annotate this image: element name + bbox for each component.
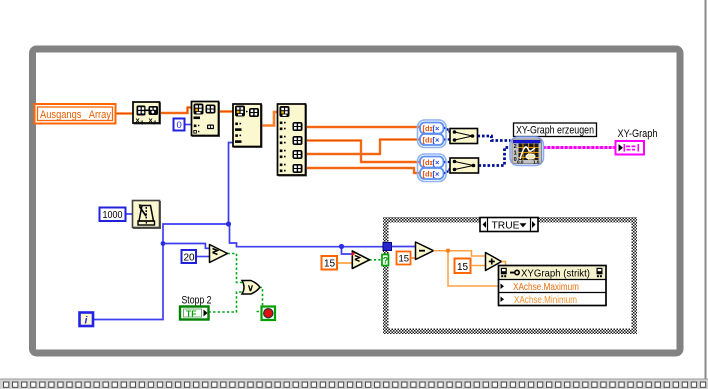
svg-text:[dɪ: [dɪ <box>423 124 433 133</box>
svg-text:[×: [× <box>433 158 440 167</box>
wire express vi to XY-Graph terminal <box>543 146 616 149</box>
wire convert2 to merge1 <box>444 138 451 140</box>
svg-text:XY-Graph erzeugen: XY-Graph erzeugen <box>516 125 594 137</box>
svg-text:[×: [× <box>433 170 440 179</box>
greater-equal node 1 <box>210 245 228 263</box>
junction dot A <box>226 221 231 226</box>
property node XYGraph (strikt) <box>499 266 607 306</box>
wire merge1 to express vi <box>478 136 511 141</box>
while loop border <box>33 49 681 353</box>
loop condition stop terminal <box>262 307 276 321</box>
control Ausgangs_Array <box>35 104 116 124</box>
numeric constant 15 b <box>455 259 471 274</box>
svg-text:[×: [× <box>433 136 440 145</box>
constant 1000 <box>100 208 126 222</box>
svg-text:[×: [× <box>433 124 440 133</box>
convert to dynamic data 3 <box>420 157 444 168</box>
svg-text:XYGraph (strikt): XYGraph (strikt) <box>521 268 590 280</box>
wire node2 to node3 <box>261 112 278 126</box>
bottom marquee strip <box>0 379 708 389</box>
constant 20 <box>182 250 197 263</box>
svg-text:ij: ij <box>141 119 144 125</box>
svg-text:15: 15 <box>324 259 336 270</box>
greater-equal node 2 <box>352 251 369 269</box>
wire convert1 to merge1 <box>444 128 451 132</box>
wire Transpose to node1 <box>160 108 192 114</box>
wire node3 out4 to convert4 <box>306 168 421 173</box>
case selector tunnel <box>382 255 389 266</box>
svg-text:ji: ji <box>153 119 157 125</box>
wire Stopp2 to or-gate <box>209 292 243 312</box>
wire branch to greater-equal 2 <box>342 247 353 255</box>
convert pair outline lower <box>418 154 447 182</box>
wire node3 out3 to convert2 <box>306 140 421 155</box>
wire or-gate to loop condition <box>260 288 263 307</box>
svg-text:XAchse.Maximum: XAchse.Maximum <box>513 281 579 293</box>
coercion dot greater-equal 2 <box>352 252 356 256</box>
convert to dynamic data 2 <box>420 134 444 145</box>
constant 15 c <box>322 256 338 270</box>
wire 1000 to metronome <box>126 213 133 215</box>
wire Ausgangs_Array to Transpose <box>116 112 133 115</box>
svg-text:[dɪ: [dɪ <box>423 158 433 167</box>
transpose node <box>133 102 161 125</box>
node1 array subset <box>192 102 220 137</box>
svg-text:15: 15 <box>457 262 469 273</box>
express vi label box XY-Graph erzeugen <box>514 123 597 137</box>
svg-text:?: ? <box>383 256 389 266</box>
boolean control Stopp 2 <box>180 295 212 320</box>
wire 15b to add <box>471 265 486 267</box>
wire iteration terminal i <box>93 143 233 320</box>
node3 index array expanded <box>278 104 307 176</box>
numeric constant 15 a <box>397 252 411 265</box>
property row XAchse.Minimum <box>501 297 505 303</box>
wire merge2 to express vi <box>479 148 511 166</box>
svg-text:TRUE: TRUE <box>492 220 520 231</box>
svg-text:[dɪ: [dɪ <box>423 170 433 179</box>
indicator terminal XY-Graph <box>616 141 645 155</box>
junction dot C <box>339 244 344 249</box>
wait metronome node <box>133 201 161 229</box>
constant 0 <box>174 119 185 132</box>
property node corner glyph left <box>501 268 507 277</box>
wire 15 to greater-equal 2 <box>337 262 352 264</box>
svg-text:XAchse.Minimum: XAchse.Minimum <box>514 294 577 306</box>
svg-text:TF: TF <box>186 309 196 319</box>
svg-text:20: 20 <box>184 252 196 263</box>
wire tunnel to subtract <box>392 246 416 248</box>
wire node3 out1 to convert1 <box>306 126 421 128</box>
svg-text:1.0: 1.0 <box>533 160 540 165</box>
wire convert4 to merge2 <box>444 170 451 174</box>
refnum glyph <box>510 270 519 274</box>
svg-text:15: 15 <box>399 254 410 265</box>
svg-text:1000: 1000 <box>103 209 123 221</box>
junction dot B <box>161 241 166 246</box>
wire junction to add <box>448 251 486 256</box>
subtract node <box>416 242 434 260</box>
merge signals 1 <box>450 129 478 144</box>
wire 20 to greater-equal 1 <box>196 256 210 258</box>
merge signals 2 <box>450 158 479 173</box>
wire greater-equal 2 output to selector tunnel <box>370 259 383 261</box>
case input tunnel (blue square) <box>383 243 392 251</box>
coercion dot subtract <box>415 245 419 249</box>
case structure border <box>383 217 637 334</box>
window edge vertical line <box>705 0 707 379</box>
wire constant 0 to node1 <box>185 124 192 126</box>
property row XAchse.Maximum <box>501 284 505 290</box>
svg-text:0: 0 <box>177 120 182 131</box>
iteration terminal i <box>80 313 94 327</box>
svg-text:∨: ∨ <box>247 283 254 294</box>
svg-text:0.0: 0.0 <box>517 160 524 165</box>
wire node3 out2 to convert3 <box>306 141 421 163</box>
wire junction down to property row2 <box>448 251 499 286</box>
wire convert3 to merge2 <box>444 161 451 163</box>
convert to dynamic data 4 <box>420 168 444 179</box>
convert pair outline upper <box>418 120 447 148</box>
wire node1 to node2 <box>219 110 234 113</box>
or gate <box>242 281 260 295</box>
case selector label TRUE <box>480 218 538 232</box>
express vi Build XY Graph <box>510 137 544 166</box>
svg-text:Ausgangs_ Array: Ausgangs_ Array <box>40 109 111 121</box>
convert to dynamic data 1 <box>420 123 444 134</box>
wire add to property node <box>502 262 506 267</box>
junction dot orange <box>446 249 450 253</box>
wire greater-equal 1 output boolean <box>228 254 243 283</box>
wire 15a to subtract <box>411 257 416 259</box>
property node corner glyph right <box>597 268 603 277</box>
svg-text:[dɪ: [dɪ <box>423 136 433 145</box>
wire branch to case tunnel <box>230 224 384 247</box>
svg-text:2: 2 <box>514 144 517 150</box>
svg-text:1: 1 <box>514 151 517 157</box>
add node <box>486 253 502 271</box>
svg-text:Stopp 2: Stopp 2 <box>182 295 212 307</box>
wire branch to greater-equal 1 <box>163 244 210 249</box>
node2 index array <box>233 104 262 148</box>
wire subtract to junction <box>434 250 449 252</box>
svg-text:XY-Graph: XY-Graph <box>618 128 658 140</box>
